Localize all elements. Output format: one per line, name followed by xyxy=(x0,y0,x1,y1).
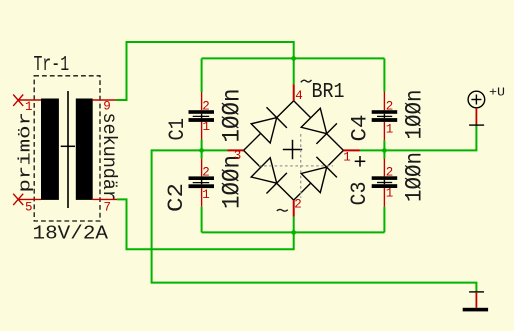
core line xyxy=(67,91,69,208)
svg-text:C4: C4 xyxy=(348,115,373,142)
diode D3 on edge L-B xyxy=(251,158,287,194)
svg-text:+U: +U xyxy=(489,86,505,100)
svg-text:1: 1 xyxy=(343,151,351,165)
svg-text:1: 1 xyxy=(386,122,394,136)
svg-text:1: 1 xyxy=(202,188,210,202)
secondary winding bar xyxy=(76,99,93,200)
svg-text:4: 4 xyxy=(295,89,303,103)
AC tilde mark near pin 2 xyxy=(277,209,288,211)
svg-text:2: 2 xyxy=(294,197,302,211)
wire net AC-bottom from Tr-1 pin 7 to bridge pin 2 and caps C2/C3 bottoms xyxy=(117,199,384,249)
diamond edge L-T (interrupted by diode D1) xyxy=(244,101,294,151)
svg-text:C1: C1 xyxy=(165,118,190,141)
svg-text:sekundär: sekundär xyxy=(98,113,120,202)
junction dot at bridge pin 4 tee xyxy=(291,55,297,61)
ground symbol xyxy=(463,292,488,312)
svg-text:1ØØn: 1ØØn xyxy=(402,90,428,140)
svg-text:1: 1 xyxy=(25,100,33,114)
svg-text:1ØØn: 1ØØn xyxy=(218,155,247,209)
svg-text:9: 9 xyxy=(103,100,111,114)
diode D4 on edge B-R xyxy=(301,157,337,193)
pin 5 wire stub xyxy=(18,198,41,200)
svg-text:2: 2 xyxy=(386,165,394,179)
diamond edge T-R (interrupted by diode D2) xyxy=(294,101,344,151)
junction dot at C1/C2 midpoint xyxy=(198,147,204,153)
diode D1 on edge L-T xyxy=(251,107,287,143)
svg-text:2: 2 xyxy=(202,100,210,114)
svg-text:2: 2 xyxy=(386,100,394,114)
gnd pin cross tick xyxy=(469,291,484,293)
transformer Tr-1 xyxy=(13,54,120,245)
primary winding bar xyxy=(41,99,59,200)
gnd bar xyxy=(463,308,488,312)
svg-text:3: 3 xyxy=(234,149,242,163)
diamond edge B-R (interrupted by diode D4) xyxy=(294,150,344,200)
capacitor C3 xyxy=(347,152,428,207)
plus mark near bridge pin 1 xyxy=(355,160,366,162)
bridge origin cross xyxy=(283,149,302,151)
wire net AC-top from Tr-1 pin 9 to bridge pin 4 and caps C1/C4 tops xyxy=(116,42,384,100)
gnd pin stub xyxy=(475,292,477,308)
svg-text:7: 7 xyxy=(104,200,112,214)
dashed outline box xyxy=(34,76,100,221)
junction dot at bridge pin 2 tee xyxy=(291,229,297,235)
supply symbol +U xyxy=(468,86,505,126)
svg-text:18V/2A: 18V/2A xyxy=(33,223,109,245)
AC tilde mark near pin 4 xyxy=(301,80,312,82)
+U pin stub xyxy=(475,108,477,125)
svg-text:5: 5 xyxy=(25,200,33,214)
pin 7 wire stub xyxy=(93,198,117,200)
wire net +U: bridge pin 1 to C4.1/C3.2 junction and +U supply xyxy=(360,125,477,159)
bridge pin 1 stub xyxy=(343,149,360,151)
svg-text:1: 1 xyxy=(386,186,394,200)
diode D2 on edge T-R xyxy=(301,108,337,144)
svg-text:primör: primör xyxy=(17,112,36,193)
bridge rectifier BR1 xyxy=(244,101,344,200)
dashed placeholder lines xyxy=(259,165,333,167)
svg-text:C2: C2 xyxy=(164,183,189,212)
pin 1 open X marker xyxy=(13,95,23,106)
pin 5 open X marker xyxy=(13,194,23,205)
svg-text:1ØØn: 1ØØn xyxy=(218,89,247,143)
svg-text:2: 2 xyxy=(202,165,210,179)
bridge pin 3 stub xyxy=(227,149,243,151)
wire net GND-minus: C1.1/C2.2 junction to bridge pin 3 and ground xyxy=(152,140,477,292)
svg-text:BR1: BR1 xyxy=(312,81,345,104)
svg-text:1ØØn: 1ØØn xyxy=(402,152,428,202)
capacitor C4 xyxy=(348,90,428,142)
svg-text:C3: C3 xyxy=(347,182,372,206)
capacitor C2 xyxy=(164,155,247,212)
junction dot at C4/C3 midpoint xyxy=(381,147,387,153)
diamond edge L-B (interrupted by diode D3) xyxy=(244,150,294,200)
svg-text:1: 1 xyxy=(203,120,211,134)
+U pin cross tick xyxy=(469,124,484,126)
svg-text:Tr-1: Tr-1 xyxy=(34,54,70,77)
pin 9 wire stub xyxy=(93,99,116,101)
pin 1 wire stub xyxy=(18,99,41,101)
core cross tick xyxy=(61,145,75,147)
bridge pin 2 stub xyxy=(293,200,295,217)
bridge pin 4 stub xyxy=(293,84,295,101)
capacitor C1 xyxy=(165,89,247,143)
